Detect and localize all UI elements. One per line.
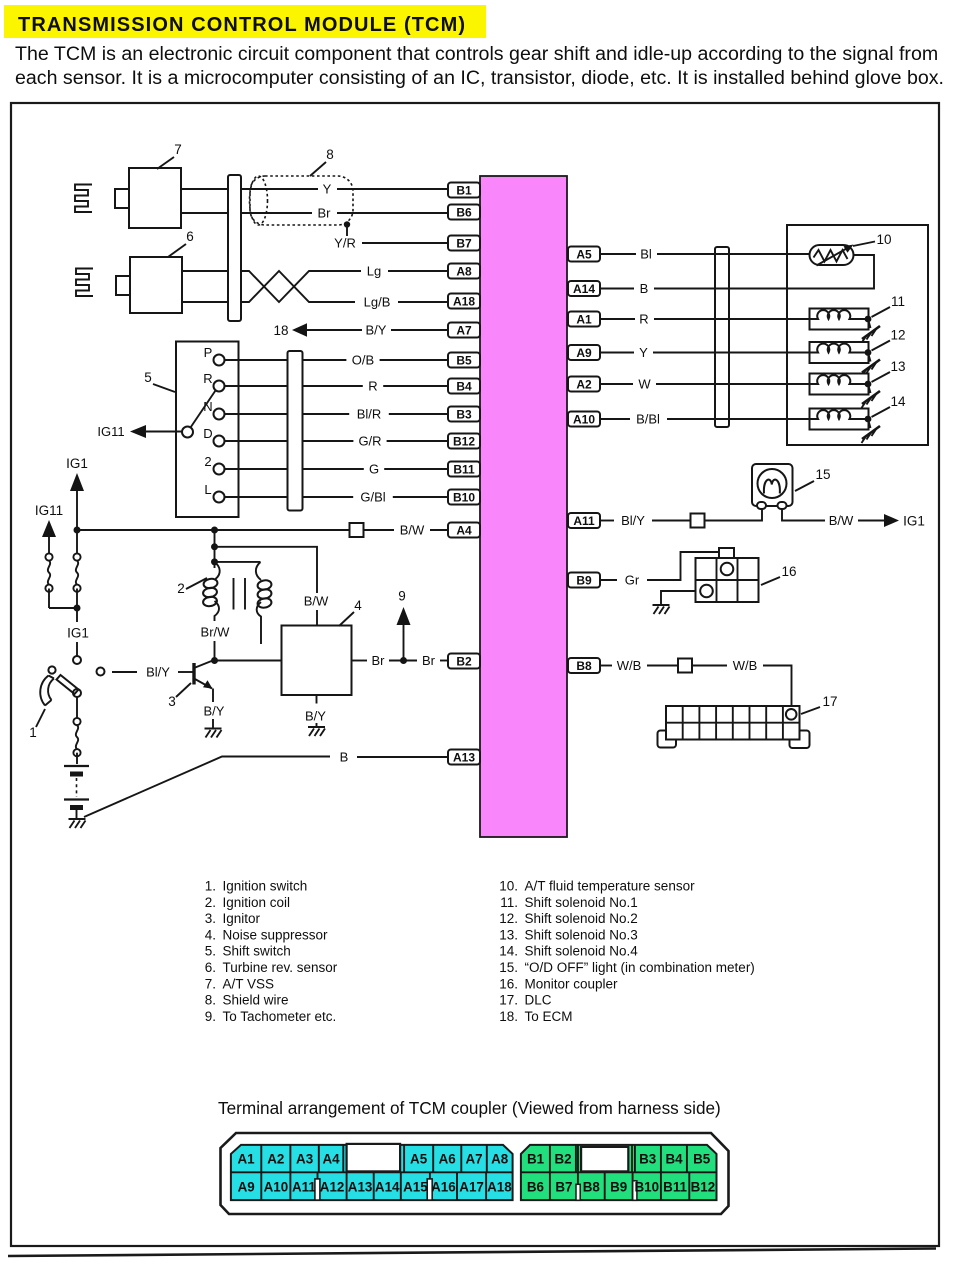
svg-text:10: 10 xyxy=(876,232,891,247)
terminal B9 (TCM right) xyxy=(568,573,600,588)
svg-text:A16: A16 xyxy=(431,1180,456,1195)
svg-text:A10: A10 xyxy=(264,1180,289,1195)
svg-text:G: G xyxy=(369,462,379,477)
svg-text:6.: 6. xyxy=(205,960,216,975)
chassis ground (solenoid 12) xyxy=(862,353,881,377)
svg-text:B10: B10 xyxy=(635,1180,660,1195)
svg-text:3: 3 xyxy=(168,694,176,709)
svg-text:Turbine rev. sensor: Turbine rev. sensor xyxy=(223,960,338,975)
terminal B5 (TCM left) xyxy=(448,353,480,368)
chassis ground (solenoid 11) xyxy=(862,319,881,343)
coupler B key slot (white) xyxy=(578,1145,632,1172)
svg-text:8.: 8. xyxy=(205,993,216,1008)
wire collector to noise suppressor xyxy=(215,660,282,662)
shift solenoid 12 xyxy=(810,342,869,363)
svg-text:B6: B6 xyxy=(527,1180,544,1195)
wire O/B to B5 xyxy=(303,353,449,368)
svg-text:G/Bl: G/Bl xyxy=(360,490,385,505)
terminal A4 (TCM left) xyxy=(448,523,480,538)
wire G to B11 xyxy=(303,462,449,477)
wire Br/W coil to ignitor xyxy=(201,625,231,661)
svg-text:A11: A11 xyxy=(292,1180,316,1195)
IG1 net label (to ignition switch) xyxy=(67,626,89,665)
wire B/W branch to noise suppressor xyxy=(215,547,330,626)
svg-text:W/B: W/B xyxy=(733,658,758,673)
wire B (A14) sensor return xyxy=(600,255,874,296)
svg-text:Shift solenoid No.1: Shift solenoid No.1 xyxy=(525,895,638,910)
svg-text:A/T VSS: A/T VSS xyxy=(223,976,275,991)
svg-text:IG11: IG11 xyxy=(35,503,63,518)
svg-text:B1: B1 xyxy=(527,1152,545,1167)
svg-text:W/B: W/B xyxy=(617,658,642,673)
svg-text:B: B xyxy=(640,281,649,296)
wire W/B (B8) to DLC xyxy=(600,658,678,673)
svg-text:Ignition coil: Ignition coil xyxy=(223,895,291,910)
shift position D contact xyxy=(203,426,224,447)
svg-text:B2: B2 xyxy=(554,1152,571,1167)
svg-text:B9: B9 xyxy=(576,573,592,587)
svg-text:B/Y: B/Y xyxy=(305,709,326,724)
fuse below ignition switch xyxy=(73,697,80,764)
O/D OFF light 15 xyxy=(752,464,793,509)
svg-text:B: B xyxy=(340,750,349,765)
inline connector on B/W wire xyxy=(350,523,364,537)
shift switch connector bar xyxy=(288,351,303,511)
svg-text:5: 5 xyxy=(144,370,152,385)
label 17 xyxy=(801,694,838,714)
TCM coupler outline xyxy=(221,1133,729,1214)
chassis ground (solenoid 13) xyxy=(862,384,881,408)
fuse on IG1 line xyxy=(73,530,80,622)
shift solenoid 11 xyxy=(810,309,869,330)
svg-text:D: D xyxy=(203,426,212,441)
terminal B8 (TCM right) xyxy=(568,658,600,673)
svg-text:15: 15 xyxy=(815,467,830,482)
svg-text:IG11: IG11 xyxy=(97,424,124,439)
svg-text:B/Bl: B/Bl xyxy=(636,412,660,427)
terminal A1 (TCM right) xyxy=(568,312,600,327)
wire IG1 feed row xyxy=(77,529,350,531)
svg-text:B3: B3 xyxy=(456,407,472,421)
svg-text:B2: B2 xyxy=(456,654,472,668)
svg-text:A1: A1 xyxy=(576,312,592,326)
svg-text:A9: A9 xyxy=(238,1180,255,1195)
svg-text:A8: A8 xyxy=(456,264,472,278)
label 8 xyxy=(310,147,334,176)
svg-text:R: R xyxy=(368,379,377,394)
rotor teeth of turbine sensor xyxy=(76,269,93,297)
right connector bar xyxy=(715,247,729,427)
label 14 xyxy=(872,394,906,417)
svg-text:1: 1 xyxy=(29,725,37,740)
svg-text:3.: 3. xyxy=(205,911,216,926)
svg-text:A13: A13 xyxy=(348,1180,373,1195)
node: collector junction xyxy=(211,657,218,664)
shift position N contact xyxy=(203,399,224,420)
ignition switch 1 xyxy=(40,666,81,705)
svg-text:B/Y: B/Y xyxy=(366,323,387,338)
shift position R contact xyxy=(203,371,224,392)
svg-text:A8: A8 xyxy=(491,1152,509,1167)
wire sensor7 to connector xyxy=(181,189,228,213)
terminal B10 (TCM left) xyxy=(448,490,480,505)
label 5 xyxy=(144,370,175,392)
svg-text:Ignition switch: Ignition switch xyxy=(223,879,308,894)
inline connector on W/B wire xyxy=(678,659,692,673)
svg-text:Lg: Lg xyxy=(367,264,381,279)
wire Y to B1 xyxy=(241,182,448,197)
fuse on IG11 line xyxy=(45,553,74,608)
svg-text:To Tachometer etc.: To Tachometer etc. xyxy=(223,1009,337,1024)
shift position 2 contact xyxy=(204,454,224,475)
svg-text:A7: A7 xyxy=(456,323,472,337)
shield drain node xyxy=(344,221,350,227)
shift position P contact xyxy=(204,345,225,366)
svg-text:9.: 9. xyxy=(205,1009,216,1024)
svg-text:2.: 2. xyxy=(205,895,216,910)
wire Br to B6 xyxy=(241,206,448,221)
coupler A half (cyan) xyxy=(231,1145,513,1200)
svg-text:B12: B12 xyxy=(453,434,475,448)
label 3 xyxy=(168,683,191,709)
coupler ground wire xyxy=(661,591,696,604)
wire Lg to A8 (twisted pair) xyxy=(241,264,448,303)
svg-text:B/Y: B/Y xyxy=(204,704,225,719)
svg-text:R: R xyxy=(639,312,648,327)
wire Y/R to B7 xyxy=(334,226,448,251)
IG1 arrow (right) xyxy=(884,514,925,529)
wire G/Bl to B10 xyxy=(303,490,449,505)
svg-text:B1: B1 xyxy=(456,183,472,197)
svg-text:P: P xyxy=(204,345,213,360)
svg-text:A9: A9 xyxy=(576,346,592,360)
wire Br suppressor to B2 xyxy=(352,653,449,668)
node: branch to noise suppressor xyxy=(211,543,218,550)
svg-text:B8: B8 xyxy=(576,659,592,673)
wire B/Y to A7 xyxy=(307,323,448,338)
svg-text:A5: A5 xyxy=(410,1152,428,1167)
description paragraph xyxy=(15,43,944,89)
label 11 xyxy=(872,294,906,317)
svg-text:A18: A18 xyxy=(453,294,475,308)
terminal A13 (TCM left) xyxy=(448,750,480,765)
svg-text:Br: Br xyxy=(422,653,436,668)
svg-text:A6: A6 xyxy=(439,1152,456,1167)
legend list left column xyxy=(205,879,338,1024)
svg-text:B3: B3 xyxy=(639,1152,656,1167)
svg-text:2: 2 xyxy=(204,454,211,469)
wire from L contact to connector xyxy=(225,496,288,498)
title highlight bar xyxy=(4,5,486,38)
label 2 xyxy=(177,578,207,596)
svg-text:11: 11 xyxy=(891,294,905,309)
wire from N contact to connector xyxy=(225,413,288,415)
coupler B terminal labels xyxy=(527,1152,715,1195)
terminal A9 (TCM right) xyxy=(568,345,600,360)
ground (battery) xyxy=(69,819,86,828)
node: IG11/IG1 merge xyxy=(74,605,81,612)
svg-text:Bl/Y: Bl/Y xyxy=(621,513,645,528)
shift solenoid 13 xyxy=(810,374,869,395)
svg-text:10.: 10. xyxy=(499,879,518,894)
selector contact and arm xyxy=(182,391,216,438)
svg-text:B5: B5 xyxy=(693,1152,711,1167)
svg-text:Terminal arrangement of TCM co: Terminal arrangement of TCM coupler (Vie… xyxy=(218,1098,721,1118)
DLC 17 xyxy=(658,706,810,748)
svg-text:18: 18 xyxy=(273,323,288,338)
svg-text:15.: 15. xyxy=(499,960,518,975)
svg-text:B6: B6 xyxy=(456,205,472,219)
svg-text:each sensor. It is a microcomp: each sensor. It is a microcomputer consi… xyxy=(15,67,944,89)
ignitor 3 (transistor) xyxy=(194,660,214,689)
shift switch 5 body xyxy=(176,342,239,518)
svg-text:Shift solenoid No.4: Shift solenoid No.4 xyxy=(525,944,639,959)
terminal B1 (TCM left) xyxy=(448,183,480,198)
svg-text:A3: A3 xyxy=(296,1152,313,1167)
ground (noise suppressor) xyxy=(308,727,325,736)
terminal B4 (TCM left) xyxy=(448,379,480,394)
primary feed wire xyxy=(214,530,216,568)
A/T VSS sensor 7 xyxy=(115,168,181,228)
chassis ground (solenoid 14) xyxy=(862,419,881,443)
svg-text:A13: A13 xyxy=(453,750,475,764)
svg-text:A5: A5 xyxy=(576,247,592,261)
ignition coil 2 primary winding xyxy=(202,562,219,621)
IG11 feed arrow to shift switch xyxy=(97,424,182,439)
svg-text:B12: B12 xyxy=(691,1180,716,1195)
svg-text:7.: 7. xyxy=(205,976,216,991)
svg-text:IG1: IG1 xyxy=(67,626,89,641)
svg-text:2: 2 xyxy=(177,581,185,596)
wire Gr (B9) to monitor coupler xyxy=(600,552,719,588)
svg-text:B4: B4 xyxy=(665,1152,683,1167)
svg-text:14: 14 xyxy=(890,394,906,409)
node: solenoid 12 ground junction xyxy=(865,349,872,356)
to tachometer arrow 9 xyxy=(397,589,411,661)
svg-text:17: 17 xyxy=(822,694,837,709)
node: solenoid 14 ground junction xyxy=(865,416,872,423)
IG11 supply arrow xyxy=(35,503,63,554)
coupler B half (green) xyxy=(521,1145,717,1200)
node: solenoid 13 ground junction xyxy=(865,381,872,388)
svg-text:B7: B7 xyxy=(555,1180,572,1195)
coupler A polarizing ribs xyxy=(315,1179,432,1200)
node: tachometer branch xyxy=(400,657,407,664)
svg-text:8: 8 xyxy=(326,147,334,162)
svg-text:B4: B4 xyxy=(456,379,472,393)
svg-text:A7: A7 xyxy=(465,1152,482,1167)
monitor coupler 16 xyxy=(696,548,759,602)
svg-text:A1: A1 xyxy=(237,1152,255,1167)
svg-text:11.: 11. xyxy=(500,895,518,910)
svg-text:A4: A4 xyxy=(456,523,472,537)
label 10 xyxy=(853,232,892,247)
sensor connector bar xyxy=(228,175,241,321)
svg-text:5.: 5. xyxy=(205,944,216,959)
svg-text:4.: 4. xyxy=(205,927,216,942)
svg-text:Monitor coupler: Monitor coupler xyxy=(525,976,619,991)
svg-text:DLC: DLC xyxy=(525,993,552,1008)
svg-text:12: 12 xyxy=(890,328,905,343)
svg-text:B/W: B/W xyxy=(304,594,329,609)
svg-text:B9: B9 xyxy=(610,1180,627,1195)
svg-text:R: R xyxy=(203,371,212,386)
svg-text:B11: B11 xyxy=(453,462,475,476)
ground (ignitor) xyxy=(205,729,222,738)
svg-text:A17: A17 xyxy=(459,1180,484,1195)
svg-text:W: W xyxy=(638,377,651,392)
terminal B11 (TCM left) xyxy=(448,462,480,477)
terminal A14 (TCM right) xyxy=(568,281,600,296)
label 13 xyxy=(872,359,906,382)
svg-text:14.: 14. xyxy=(499,944,518,959)
wire from 2 contact to connector xyxy=(225,468,288,470)
svg-text:Noise suppressor: Noise suppressor xyxy=(223,927,329,942)
svg-text:B11: B11 xyxy=(663,1180,687,1195)
wire R to B4 xyxy=(303,379,449,394)
svg-text:Shift solenoid No.3: Shift solenoid No.3 xyxy=(525,927,638,942)
svg-text:L: L xyxy=(204,482,211,497)
wire Bl/Y (A11) to O/D lamp xyxy=(600,513,691,528)
wire from P contact to connector xyxy=(225,359,288,361)
terminal B6 (TCM left) xyxy=(448,205,480,220)
svg-text:6: 6 xyxy=(186,229,194,244)
wire Bl/R to B3 xyxy=(303,407,449,422)
wire B/Bl (A10) to solenoid 4 xyxy=(600,412,810,427)
transmission assembly box xyxy=(787,225,928,445)
label 12 xyxy=(872,328,906,351)
label 15 xyxy=(795,467,831,491)
svg-text:Lg/B: Lg/B xyxy=(364,295,391,310)
node: branch to secondary xyxy=(211,558,218,565)
svg-text:B10: B10 xyxy=(453,490,475,504)
terminal A7 (TCM left) xyxy=(448,323,480,338)
wire Bl (A5) to temp sensor xyxy=(600,247,810,262)
svg-text:O/B: O/B xyxy=(352,353,374,368)
terminal A2 (TCM right) xyxy=(568,377,600,392)
label 6 xyxy=(168,229,194,257)
svg-text:Br/W: Br/W xyxy=(201,625,231,640)
svg-text:The TCM is an electronic circu: The TCM is an electronic circuit compone… xyxy=(15,43,938,65)
svg-text:A/T fluid temperature sensor: A/T fluid temperature sensor xyxy=(525,879,696,894)
svg-text:A10: A10 xyxy=(573,412,595,426)
terminal A10 (TCM right) xyxy=(568,412,600,427)
terminal A18 (TCM left) xyxy=(448,294,480,309)
wire B/W lamp to IG1 xyxy=(782,508,884,528)
svg-text:To ECM: To ECM xyxy=(525,1009,573,1024)
svg-text:Bl/Y: Bl/Y xyxy=(146,665,170,680)
wire Y (A9) to solenoid 2 xyxy=(600,345,810,360)
node: solenoid 11 ground junction xyxy=(865,316,872,323)
svg-text:Shift switch: Shift switch xyxy=(223,944,291,959)
svg-text:Shift solenoid No.2: Shift solenoid No.2 xyxy=(525,911,638,926)
svg-text:A12: A12 xyxy=(320,1180,345,1195)
wire G/R to B12 xyxy=(303,434,449,449)
wire W (A2) to solenoid 3 xyxy=(600,377,810,392)
wire from D contact to connector xyxy=(225,440,288,442)
svg-text:TRANSMISSION CONTROL MODULE (T: TRANSMISSION CONTROL MODULE (TCM) xyxy=(18,14,466,36)
svg-text:B8: B8 xyxy=(583,1180,601,1195)
svg-text:A2: A2 xyxy=(267,1152,284,1167)
svg-text:A18: A18 xyxy=(487,1180,512,1195)
shift solenoid 14 xyxy=(810,409,869,430)
wire from R contact to connector xyxy=(225,385,288,387)
svg-text:Y: Y xyxy=(323,182,332,197)
svg-text:Ignitor: Ignitor xyxy=(223,911,261,926)
A/T fluid temperature sensor 10 xyxy=(810,245,854,266)
to ECM arrow 18 xyxy=(273,323,307,338)
wire B/Y suppressor to ground xyxy=(305,695,326,726)
wire sensor6 to connector xyxy=(182,271,228,302)
svg-text:A14: A14 xyxy=(375,1180,400,1195)
ground (monitor coupler) xyxy=(653,605,670,614)
svg-text:G/R: G/R xyxy=(358,434,381,449)
wire B/W to A4 xyxy=(364,523,449,538)
svg-text:“O/D OFF” light (in combinatio: “O/D OFF” light (in combination meter) xyxy=(525,960,755,975)
svg-text:13.: 13. xyxy=(499,927,518,942)
svg-text:B/W: B/W xyxy=(400,523,425,538)
svg-text:17.: 17. xyxy=(499,993,518,1008)
terminal A11 (TCM right) xyxy=(568,513,600,528)
svg-text:7: 7 xyxy=(174,142,182,157)
label 7 xyxy=(157,142,182,169)
emitter wire B/Y to ground xyxy=(204,689,225,728)
svg-text:B/W: B/W xyxy=(829,513,854,528)
svg-text:9: 9 xyxy=(398,589,406,604)
svg-text:12.: 12. xyxy=(499,911,518,926)
svg-text:A2: A2 xyxy=(576,377,592,391)
noise suppressor 4 xyxy=(282,626,352,696)
coupler A key slot (white) xyxy=(343,1144,404,1172)
svg-text:16.: 16. xyxy=(499,976,518,991)
TCM module block xyxy=(480,176,567,837)
svg-text:Br: Br xyxy=(372,653,386,668)
ignition coil 2 secondary winding xyxy=(215,562,273,644)
svg-text:Y/R: Y/R xyxy=(334,236,356,251)
node: IG1 junction on B/W row xyxy=(74,527,81,534)
inline connector on Bl/Y wire xyxy=(691,514,705,528)
wire R (A1) to solenoid 1 xyxy=(600,312,810,327)
rotor teeth of A/T VSS xyxy=(75,185,92,213)
wire Lg/B to A18 (twisted pair) xyxy=(241,271,448,310)
label 4 xyxy=(339,598,362,626)
terminal arrangement title xyxy=(218,1098,721,1118)
svg-text:16: 16 xyxy=(781,564,796,579)
svg-text:Y: Y xyxy=(639,345,648,360)
wire B to A13 xyxy=(84,750,448,818)
turbine rev. sensor 6 xyxy=(116,257,182,313)
svg-text:A11: A11 xyxy=(573,514,595,528)
svg-text:IG1: IG1 xyxy=(903,514,925,529)
ignition coil core xyxy=(234,578,246,610)
shift position L contact xyxy=(204,482,224,503)
svg-text:B7: B7 xyxy=(456,236,472,250)
IG1 supply arrow (top) xyxy=(66,456,88,530)
battery xyxy=(64,766,89,818)
footer rule xyxy=(8,1249,936,1257)
svg-text:B5: B5 xyxy=(456,353,472,367)
wire connector to lamp xyxy=(705,508,763,521)
label 1 xyxy=(29,709,45,740)
terminal B2 (TCM left) xyxy=(448,654,480,669)
label 16 xyxy=(761,564,797,585)
svg-text:Gr: Gr xyxy=(625,573,640,588)
legend list right column xyxy=(499,879,755,1024)
svg-text:4: 4 xyxy=(354,598,362,613)
terminal A5 (TCM right) xyxy=(568,247,600,262)
node: coil branch on B/W row xyxy=(211,527,218,534)
svg-text:18.: 18. xyxy=(499,1009,518,1024)
